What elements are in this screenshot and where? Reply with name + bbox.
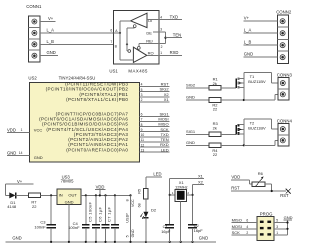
svg-text:US1P: US1P: [126, 213, 130, 223]
svg-text:3: 3: [276, 225, 278, 229]
svg-text:100nF: 100nF: [68, 225, 80, 230]
svg-text:VCC: VCC: [131, 199, 135, 207]
svg-text:MISO: MISO: [232, 218, 242, 223]
microcontroller US2 body: [30, 83, 140, 163]
ground rail junction: [169, 241, 171, 243]
resistor R5: [144, 188, 149, 199]
svg-text:DE: DE: [146, 31, 152, 36]
svg-text:16pF: 16pF: [194, 228, 204, 233]
ground rail junction: [180, 241, 182, 243]
wire GND CONN1: [40, 55, 58, 57]
svg-text:GND: GND: [47, 50, 56, 55]
svg-text:GND: GND: [199, 235, 208, 240]
ground rail junction: [85, 241, 87, 243]
resistor R4: [209, 143, 221, 148]
ground rail junction: [68, 241, 70, 243]
ground rail junction: [104, 241, 106, 243]
svg-text:4: 4: [246, 225, 248, 229]
wire TEN: [165, 32, 167, 44]
X2 right wire: [192, 185, 194, 225]
wire L_A CONN1 to US1 A: [40, 32, 114, 34]
svg-text:TINY24/44/84-SSU: TINY24/44/84-SSU: [59, 76, 96, 81]
diode D1: [6, 194, 10, 196]
svg-text:MAX485: MAX485: [128, 69, 148, 74]
connector CONN1: [26, 4, 42, 62]
PROG pin 5: [274, 222, 288, 224]
svg-text:CONN2: CONN2: [276, 9, 292, 14]
svg-text:7: 7: [141, 118, 143, 122]
svg-text:11: 11: [141, 138, 145, 142]
svg-text:6: 6: [110, 29, 112, 33]
svg-text:SCK: SCK: [232, 230, 241, 235]
node A internal: [114, 32, 120, 34]
svg-text:100nF: 100nF: [34, 224, 46, 229]
svg-text:2: 2: [141, 98, 143, 102]
capacitor C7: [114, 194, 116, 196]
svg-text:6: 6: [141, 113, 143, 117]
svg-text:RST: RST: [280, 193, 289, 198]
svg-text:78M05: 78M05: [61, 179, 74, 184]
svg-text:14: 14: [19, 151, 23, 155]
svg-text:L_A: L_A: [244, 27, 252, 32]
crystal case ground: [180, 201, 182, 242]
svg-text:VCC: VCC: [34, 128, 43, 133]
svg-text:GND: GND: [34, 155, 43, 160]
svg-text:C6 1µF: C6 1µF: [97, 206, 102, 222]
svg-text:9: 9: [141, 128, 143, 132]
transistor T2 symbol: [236, 124, 244, 135]
svg-text:GND: GND: [131, 229, 135, 237]
T2 source junction: [243, 144, 245, 146]
svg-text:6: 6: [246, 219, 248, 223]
driver DE bubble: [133, 25, 136, 28]
svg-text:GND: GND: [12, 235, 21, 240]
svg-text:GND: GND: [7, 150, 16, 155]
svg-text:2: 2: [246, 231, 248, 235]
svg-text:V+: V+: [244, 15, 250, 20]
svg-text:3: 3: [141, 93, 143, 97]
svg-text:SIG2: SIG2: [186, 82, 196, 87]
svg-text:1: 1: [21, 128, 23, 132]
svg-text:7: 7: [110, 40, 112, 44]
svg-text:2k: 2k: [213, 81, 217, 86]
capacitor C5: [95, 194, 97, 196]
PROG pin 3: [274, 228, 288, 230]
svg-text:TEN: TEN: [173, 33, 181, 38]
svg-text:GND: GND: [284, 215, 293, 220]
US3 GND pin: [68, 205, 70, 242]
svg-text:12: 12: [141, 143, 145, 147]
svg-text:RXD: RXD: [170, 50, 179, 55]
svg-text:OUT: OUT: [68, 192, 77, 197]
svg-text:R6: R6: [258, 171, 264, 176]
svg-text:PROG: PROG: [260, 211, 273, 216]
svg-text:8: 8: [126, 199, 130, 201]
header PROG: [257, 211, 274, 240]
resistor R2: [209, 98, 221, 103]
connector CON4: [277, 118, 293, 146]
svg-text:MOSI: MOSI: [232, 224, 242, 229]
svg-text:BUZ11BV: BUZ11BV: [248, 126, 266, 131]
receiver triangle US1: [133, 47, 146, 62]
connector CON2: [276, 9, 292, 63]
svg-text:GND: GND: [244, 51, 253, 56]
op-amp U box US1: [114, 11, 160, 65]
svg-text:2: 2: [161, 45, 163, 49]
svg-text:RO: RO: [148, 50, 154, 55]
node B internal: [126, 43, 128, 45]
T1 source junction: [243, 99, 245, 101]
svg-text:VDD: VDD: [96, 184, 105, 189]
svg-text:VDD: VDD: [231, 175, 240, 180]
svg-text:10: 10: [141, 133, 145, 137]
svg-text:V+: V+: [48, 16, 54, 21]
svg-text:22: 22: [32, 204, 37, 209]
svg-text:GND: GND: [65, 199, 74, 204]
svg-text:4148: 4148: [7, 204, 17, 209]
svg-text:VDD: VDD: [7, 127, 16, 132]
capacitor C2: [188, 224, 197, 226]
svg-text:4: 4: [160, 15, 162, 19]
capacitor C6: [104, 194, 106, 196]
svg-text:R5: R5: [138, 189, 142, 194]
svg-text:X1: X1: [164, 97, 170, 102]
LED D2: [143, 212, 148, 218]
ground rail junction: [95, 241, 97, 243]
ground rail junction: [114, 241, 116, 243]
svg-text:DI: DI: [148, 18, 152, 23]
wire R7 to US3: [41, 194, 57, 196]
wire V+ CONN1: [40, 21, 55, 23]
svg-text:TXD: TXD: [170, 14, 178, 19]
svg-text:5: 5: [126, 235, 130, 237]
svg-text:RE/: RE/: [146, 39, 154, 44]
svg-text:4: 4: [141, 83, 143, 87]
capacitor C4: [85, 194, 87, 196]
svg-text:1: 1: [160, 51, 162, 55]
ground rail junction: [145, 241, 147, 243]
svg-text:IN: IN: [59, 192, 63, 197]
svg-text:V+: V+: [17, 179, 23, 184]
resistor R7: [29, 193, 41, 198]
wire L_B CON2: [244, 44, 278, 46]
capacitor C3: [50, 195, 52, 224]
wire L_A CON2: [244, 32, 278, 34]
transistor T1 symbol: [236, 78, 244, 89]
svg-text:BUZ11BV: BUZ11BV: [248, 79, 266, 84]
svg-text:RST: RST: [231, 186, 240, 191]
receiver enable bubble: [137, 47, 140, 50]
svg-text:5: 5: [141, 88, 143, 92]
svg-text:3: 3: [160, 28, 162, 32]
ground rail junction: [129, 241, 131, 243]
wire L_B CONN1 to US1 B: [40, 43, 114, 45]
svg-text:13: 13: [141, 148, 145, 152]
svg-text:5: 5: [276, 219, 278, 223]
svg-text:GND: GND: [186, 95, 195, 100]
svg-text:8: 8: [141, 123, 143, 127]
svg-text:L_B: L_B: [47, 39, 55, 44]
svg-text:A: A: [115, 29, 118, 33]
svg-text:LED: LED: [161, 147, 169, 152]
driver triangle US1: [131, 13, 147, 27]
svg-text:D2: D2: [151, 208, 157, 213]
PROG pin 1: [274, 234, 288, 236]
wire GND CON2: [244, 56, 278, 58]
svg-text:CONN1: CONN1: [26, 4, 42, 9]
svg-text:X2: X2: [198, 180, 204, 185]
svg-text:(PCINT8/XTAL1/CLKI)PB0: (PCINT8/XTAL1/CLKI)PB0: [66, 97, 128, 102]
svg-text:US1: US1: [109, 69, 118, 74]
svg-text:(PCINT0/AREF/ADC0)PA0: (PCINT0/AREF/ADC0)PA0: [66, 147, 128, 152]
svg-text:GND: GND: [186, 140, 195, 145]
svg-text:CONN4: CONN4: [277, 118, 293, 123]
ground rail junction: [191, 241, 193, 243]
US1 power pins US1P: [129, 194, 131, 196]
svg-text:C5 100nF: C5 100nF: [88, 201, 93, 222]
svg-text:12MHz: 12MHz: [175, 184, 188, 189]
svg-text:B: B: [115, 45, 118, 49]
svg-text:C7 1µF: C7 1µF: [107, 206, 112, 222]
svg-text:SIG1: SIG1: [186, 129, 196, 134]
T2 drain wire: [243, 119, 245, 145]
svg-text:22: 22: [213, 107, 218, 112]
VDD rail: [81, 194, 131, 196]
X1 left wire: [169, 178, 171, 224]
ground rail junction: [50, 241, 52, 243]
svg-text:L_A: L_A: [47, 27, 55, 32]
T1 drain wire: [243, 73, 245, 100]
svg-text:16pF: 16pF: [161, 229, 171, 234]
svg-text:US2: US2: [28, 76, 37, 81]
svg-text:X1: X1: [198, 173, 204, 178]
ground rail: [6, 241, 216, 243]
svg-text:68: 68: [138, 203, 142, 207]
RST test point: [286, 189, 291, 194]
capacitor C1: [165, 224, 174, 226]
receiver input bubble: [128, 50, 131, 53]
svg-text:L_B: L_B: [244, 39, 252, 44]
svg-text:LED: LED: [153, 171, 161, 176]
connector CON3: [277, 72, 293, 100]
svg-text:2k: 2k: [213, 125, 217, 130]
svg-text:22: 22: [213, 152, 218, 157]
svg-text:1: 1: [276, 231, 278, 235]
svg-text:CONN3: CONN3: [277, 72, 293, 77]
wire V+ CON2: [244, 20, 278, 22]
